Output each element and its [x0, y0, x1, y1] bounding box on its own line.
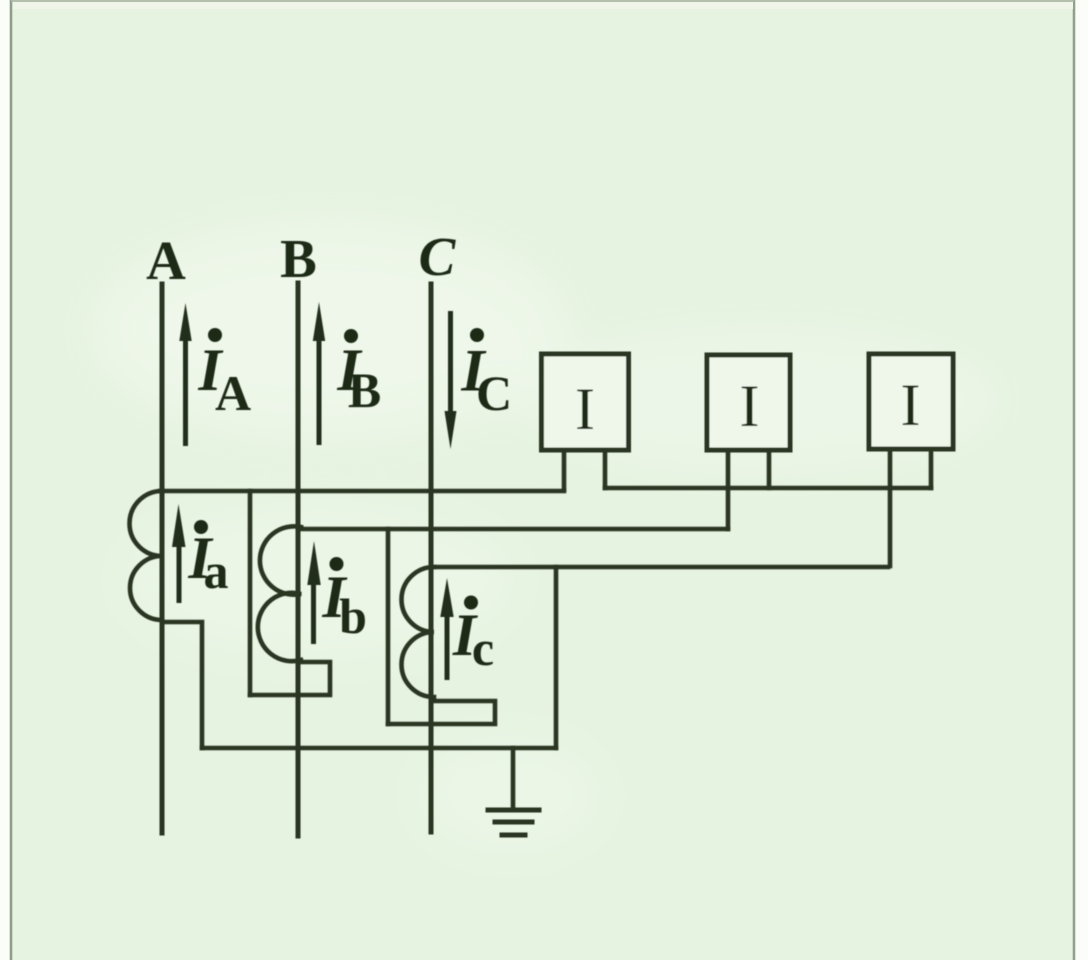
- label current IA: [208, 328, 222, 342]
- ammeter PA1 box: [542, 354, 629, 450]
- svg-text:b: b: [339, 588, 367, 644]
- ammeter PA2 right terminal stub: [767, 450, 772, 488]
- ammeter PA2 left terminal stub down to bus2: [726, 450, 731, 529]
- ammeter PA2 box: [707, 355, 790, 450]
- wire: neutral branch from bus3 down to bottom wire: [554, 567, 559, 748]
- svg-text:C: C: [419, 226, 457, 287]
- svg-text:B: B: [280, 228, 317, 289]
- CT TAa secondary coil: [130, 491, 163, 620]
- wire: TAc bottom hook: [388, 701, 495, 724]
- svg-text:a: a: [204, 543, 229, 599]
- current arrow IA (up): [183, 336, 188, 446]
- svg-text:I: I: [740, 373, 760, 439]
- label current IB: [344, 329, 358, 343]
- ammeter PA3 box: [869, 354, 953, 449]
- wire: bus2 (TAb top to ammeter PA2 left terminal): [301, 527, 728, 532]
- wire: ground drop: [511, 748, 516, 808]
- svg-text:c: c: [472, 620, 494, 676]
- svg-text:A: A: [146, 230, 186, 291]
- label current IC: [470, 328, 484, 342]
- svg-text:I: I: [901, 372, 921, 438]
- wire: bus3 (TAc top to ammeter PA3 left terminal): [434, 565, 888, 570]
- phase conductor C: [429, 284, 434, 832]
- phase conductor A: [160, 284, 165, 833]
- ground symbol: [488, 810, 539, 835]
- wire: TAb bottom return riser to bus1: [248, 491, 253, 695]
- wire: TAa bottom hook and drop: [162, 622, 202, 748]
- phase conductor B: [296, 283, 301, 836]
- current arrow IB (up): [317, 336, 322, 445]
- CT TAc secondary coil: [402, 567, 435, 697]
- wire: bus1 right segment (PA1 right to PA2 right to PA3 right terminals): [605, 486, 931, 491]
- current arrow IC (down): [448, 311, 453, 414]
- label current Ia: [194, 520, 208, 534]
- wire: bus1 left segment (TAa top to ammeter PA1 left terminal): [160, 489, 564, 494]
- ammeter PA3 right terminal stub: [929, 449, 934, 488]
- svg-text:B: B: [348, 362, 381, 418]
- ammeter PA1 left terminal stub: [562, 450, 567, 489]
- wire: TAc bottom return riser to bus2: [386, 529, 391, 724]
- ammeter PA3 left terminal stub down to bus3: [888, 449, 893, 566]
- wire: TAb bottom hook: [250, 662, 330, 695]
- current arrow Ia (up): [177, 543, 182, 603]
- ammeter PA1 right terminal stub: [603, 450, 608, 488]
- label current Ib: [330, 557, 344, 571]
- current arrow Ic (up): [445, 614, 450, 680]
- svg-text:C: C: [476, 365, 512, 421]
- CT TAb secondary coil: [258, 526, 301, 661]
- svg-text:A: A: [215, 365, 251, 421]
- label current Ic: [464, 596, 478, 610]
- current arrow Ib (up): [311, 581, 316, 644]
- wire: bottom wire (TAa bottom to neutral branch): [202, 746, 556, 751]
- svg-text:I: I: [575, 376, 595, 442]
